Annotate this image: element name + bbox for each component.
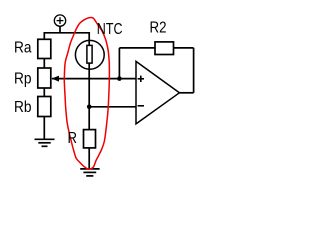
wire feedback branch up from + node <box>118 48 120 79</box>
svg-text:NTC: NTC <box>97 21 123 38</box>
ground (bottom) <box>80 169 99 176</box>
resistor Rb <box>38 97 51 117</box>
potentiometer Rp <box>38 68 51 88</box>
wire op-amp output <box>179 92 193 94</box>
op-amp U1 <box>136 61 179 124</box>
wire power stub <box>59 26 61 33</box>
wire R to ground <box>88 148 90 169</box>
svg-text:Ra: Ra <box>14 40 32 57</box>
wire Rp to Rb <box>43 88 45 97</box>
wire top rail <box>44 32 89 34</box>
power supply V+ <box>54 15 65 26</box>
resistor R2 <box>155 42 174 55</box>
wire feedback vertical right <box>193 48 195 93</box>
resistor R <box>84 130 96 148</box>
node junction at - branch <box>87 105 92 110</box>
op-amp + input symbol <box>138 76 144 82</box>
svg-text:R2: R2 <box>150 19 167 36</box>
op-amp - input symbol <box>138 105 144 107</box>
node junction at + input <box>117 76 122 81</box>
thermistor NTC <box>75 40 104 69</box>
wire Rb to ground <box>43 117 45 140</box>
wire Ra to Rp <box>43 59 45 69</box>
resistor Ra <box>38 39 51 58</box>
svg-text:Rb: Rb <box>14 99 32 116</box>
wire wiper to op-amp + input <box>52 78 136 80</box>
wiper arrow of Rp <box>52 76 59 82</box>
wire R2 right <box>174 47 194 49</box>
svg-text:Rp: Rp <box>14 71 32 88</box>
wire to R2 left <box>119 47 155 49</box>
ground (left) <box>35 139 55 146</box>
wire rail to Ra <box>43 32 45 39</box>
wire node to op-amp - input <box>89 106 136 108</box>
red highlight ellipse around NTC and R <box>64 17 109 169</box>
wire NTC branch vertical <box>88 32 90 130</box>
svg-text:R: R <box>68 130 78 147</box>
